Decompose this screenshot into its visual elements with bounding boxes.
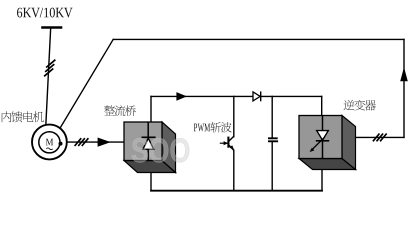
wire chopper emitter lead: [233, 150, 235, 191]
label inverter 逆变器: [344, 100, 376, 111]
thyristor symbol inside inverter: [310, 116, 330, 159]
wire capacitor bottom lead: [271, 141, 273, 191]
junction dot motor output: [59, 142, 63, 146]
cable break marks on inverter output wire: [373, 134, 380, 142]
diode symbol inside rectifier: [142, 122, 156, 161]
label chopper 斩波: [210, 122, 231, 133]
wire capacitor top lead: [271, 96, 273, 138]
wire inverter bottom lead: [321, 169, 323, 191]
motor M inner circle: [39, 132, 60, 153]
node 6KV/10KV supply terminal bar: [43, 26, 62, 29]
arrow on DC bus: [176, 92, 187, 101]
inverter box right face: [342, 116, 356, 170]
inverter box bottom face: [299, 159, 356, 170]
watermark: [132, 138, 189, 162]
label motor 内馈电机: [2, 111, 44, 122]
rectifier bridge box front face: [124, 122, 162, 161]
wire right feedback vertical: [403, 39, 405, 137]
wire top feedback horizontal: [113, 38, 404, 40]
wire supply drop to motor: [46, 28, 51, 126]
cable break marks on supply line: [46, 60, 55, 68]
cable break marks on motor-rectifier wire: [75, 138, 82, 146]
wire DC bus top: [151, 95, 322, 97]
wire inverter output to right vertical: [355, 136, 404, 138]
wire motor to rectifier input: [60, 141, 125, 143]
rectifier bridge box right face: [162, 122, 176, 173]
wire chopper collector lead: [233, 96, 235, 136]
PWM chopper transistor Q: [220, 136, 235, 151]
arrow up on right feedback wire: [400, 67, 408, 81]
arrow into rectifier: [98, 138, 111, 147]
motor letter M and ~: [46, 139, 53, 146]
wire motor feedback diagonal: [60, 39, 113, 128]
wire inverter top lead: [321, 96, 323, 116]
diode D on DC bus: [253, 91, 261, 101]
wire DC bus bottom: [151, 190, 322, 192]
capacitor C: [268, 138, 278, 141]
label PWM (part of PWM斩波): [194, 124, 210, 132]
label rectifier 整流桥: [104, 105, 136, 116]
inverter box front face: [299, 116, 342, 159]
label 6KV/10KV: [17, 8, 73, 18]
motor M outer circle: [32, 125, 67, 160]
wire rectifier top lead: [150, 96, 152, 122]
wire rectifier bottom lead: [150, 172, 152, 191]
rectifier bridge box bottom face: [124, 161, 176, 173]
